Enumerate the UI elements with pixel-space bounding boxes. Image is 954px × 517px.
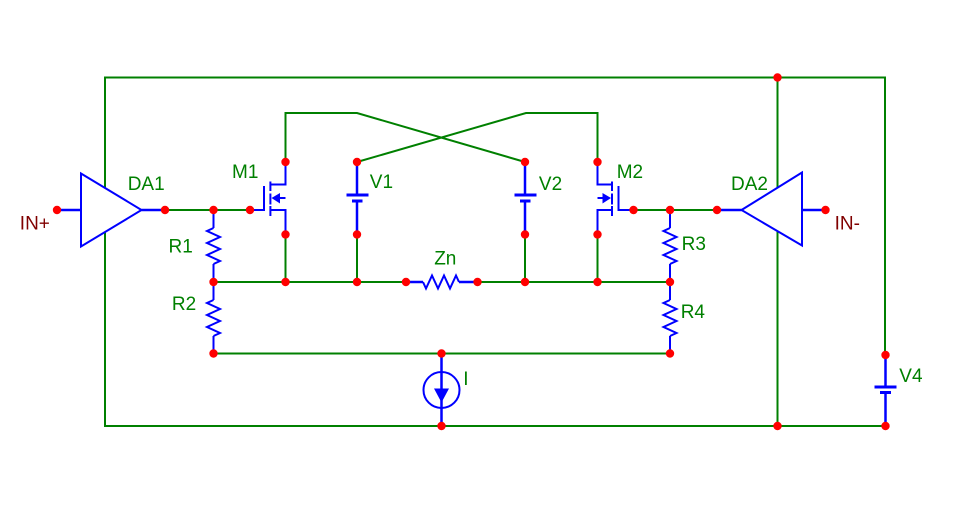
- svg-text:I: I: [463, 369, 468, 390]
- node V1 wire / mid row: [353, 278, 361, 286]
- svg-text:M1: M1: [232, 162, 258, 183]
- wire cross-couple M1 drain to V2 top: [286, 113, 526, 162]
- node R3 bottom / mid row: [666, 278, 674, 286]
- transistor M1: [250, 162, 286, 235]
- wire M1 source to mid row: [285, 235, 287, 283]
- svg-text:IN-: IN-: [835, 213, 860, 234]
- node M2 gate: [629, 206, 637, 214]
- node V2 wire / mid row: [521, 278, 529, 286]
- svg-text:V1: V1: [370, 172, 393, 193]
- wire bottom border: [104, 425, 886, 427]
- node M1 drain: [281, 158, 289, 166]
- node M2 wire / mid row: [593, 278, 601, 286]
- node dots: [53, 73, 890, 430]
- node R4 bottom: [666, 349, 674, 357]
- node M1 source: [281, 230, 289, 238]
- wire top border: [104, 77, 886, 79]
- node R1 bottom / mid row: [209, 278, 217, 286]
- node DA1 output: [161, 206, 169, 214]
- node R2 bottom: [209, 349, 217, 357]
- resistor R4: [664, 282, 677, 354]
- svg-text:DA1: DA1: [128, 174, 165, 195]
- wire mid row left: [214, 281, 407, 283]
- node Zn right: [473, 278, 481, 286]
- node Zn left: [402, 278, 410, 286]
- wire lower row: [214, 353, 671, 355]
- op-amp DA1: [57, 174, 165, 247]
- current source I: [424, 354, 460, 427]
- node V4 top: [881, 351, 889, 359]
- wire V1 bottom to mid row: [356, 235, 358, 283]
- node M1 gate: [246, 206, 254, 214]
- wire V2 bottom to mid row: [524, 235, 526, 283]
- node V2 top: [521, 158, 529, 166]
- wire cross-couple M2 drain to V1 top: [357, 113, 598, 162]
- resistor R3: [664, 210, 677, 282]
- battery V2: [515, 162, 537, 235]
- svg-text:R2: R2: [172, 294, 196, 315]
- wire main row right (M2 gate to DA2 out): [634, 209, 718, 211]
- wire M2 source to mid row: [597, 235, 599, 283]
- node R1 top: [209, 206, 217, 214]
- transistor M2: [598, 162, 634, 235]
- wire left border: [104, 77, 106, 428]
- svg-text:DA2: DA2: [731, 174, 768, 195]
- wire inner right vertical: [777, 78, 779, 427]
- node inner vertical / top border: [773, 73, 781, 81]
- resistor R1: [207, 210, 220, 282]
- svg-text:R3: R3: [682, 234, 706, 255]
- node M1 source wire / mid row: [281, 278, 289, 286]
- node V4 bottom: [881, 422, 889, 430]
- resistor R2: [207, 282, 220, 354]
- svg-text:V4: V4: [899, 366, 923, 387]
- wire main row left (DA1 out to M1 gate): [165, 209, 250, 211]
- op-amp DA2: [717, 173, 826, 246]
- node DA2 output: [713, 206, 721, 214]
- node V1 bottom: [353, 230, 361, 238]
- svg-text:M2: M2: [617, 162, 643, 183]
- svg-text:Zn: Zn: [434, 249, 456, 270]
- wire mid row right: [478, 281, 671, 283]
- node IN- terminal: [821, 206, 829, 214]
- battery V1: [347, 162, 369, 235]
- svg-text:V2: V2: [539, 174, 562, 195]
- node V1 top: [353, 158, 361, 166]
- svg-text:R4: R4: [681, 302, 706, 323]
- node IN+ terminal: [53, 206, 61, 214]
- resistor Zn: [406, 276, 478, 289]
- svg-text:R1: R1: [169, 236, 193, 257]
- node inner vertical / bottom border: [773, 422, 781, 430]
- node M2 source: [593, 230, 601, 238]
- node V2 bottom: [521, 230, 529, 238]
- node I top: [437, 349, 445, 357]
- wire right border: [884, 77, 886, 356]
- node R3 top: [666, 206, 674, 214]
- node M2 drain: [593, 158, 601, 166]
- battery V4: [875, 355, 897, 426]
- svg-text:IN+: IN+: [20, 213, 50, 234]
- node I bottom: [437, 422, 445, 430]
